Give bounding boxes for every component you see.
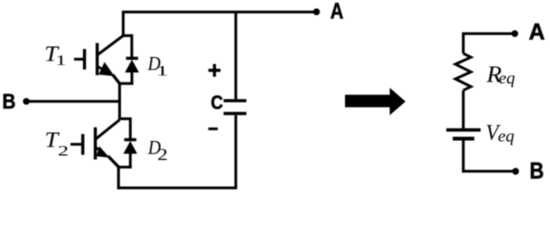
wire: capacitor bottom lead [234, 115, 237, 189]
arrow (equivalence) [345, 88, 406, 116]
wire: B lead (right) [463, 141, 515, 172]
wire: bottom rail [117, 187, 236, 190]
wire: A lead (right) [463, 34, 515, 54]
svg-text:2: 2 [157, 145, 168, 164]
voltage source V_eq [446, 130, 480, 139]
svg-text:B: B [2, 90, 15, 114]
svg-text:1: 1 [55, 53, 66, 69]
capacitor C [224, 101, 247, 114]
node A (right) [511, 30, 518, 37]
node B (right) [512, 168, 519, 175]
resistor R_eq [455, 54, 471, 129]
wire: capacitor top lead [234, 12, 237, 99]
svg-text:+: + [208, 57, 222, 84]
svg-text:2: 2 [58, 143, 69, 159]
wire: D2 branch top [120, 119, 131, 140]
svg-text:eq: eq [499, 69, 516, 88]
svg-text:B: B [530, 158, 544, 184]
wire: D1 branch bottom [120, 82, 134, 85]
label - (capacitor polarity) [208, 128, 218, 131]
node A (left) [313, 8, 320, 15]
wire: D2 branch bottom [119, 166, 132, 169]
svg-text:1: 1 [156, 63, 168, 79]
svg-text:eq: eq [498, 126, 515, 145]
wire: B lead (left) [26, 100, 121, 103]
wire: T2 emitter drop [117, 166, 120, 189]
transistor T2 [71, 120, 120, 167]
wire: D1 branch top [123, 36, 132, 58]
svg-text:C: C [211, 92, 223, 114]
diode D2 [123, 140, 137, 169]
node B (left) [23, 98, 30, 105]
svg-text:A: A [330, 0, 343, 24]
diode D1 [125, 58, 139, 85]
wire: T1 collector drop [122, 12, 125, 36]
transistor T1 [74, 36, 123, 84]
svg-text:A: A [529, 19, 545, 45]
wire: midpoint vertical [118, 82, 121, 120]
wire: top rail to node A [122, 11, 317, 14]
